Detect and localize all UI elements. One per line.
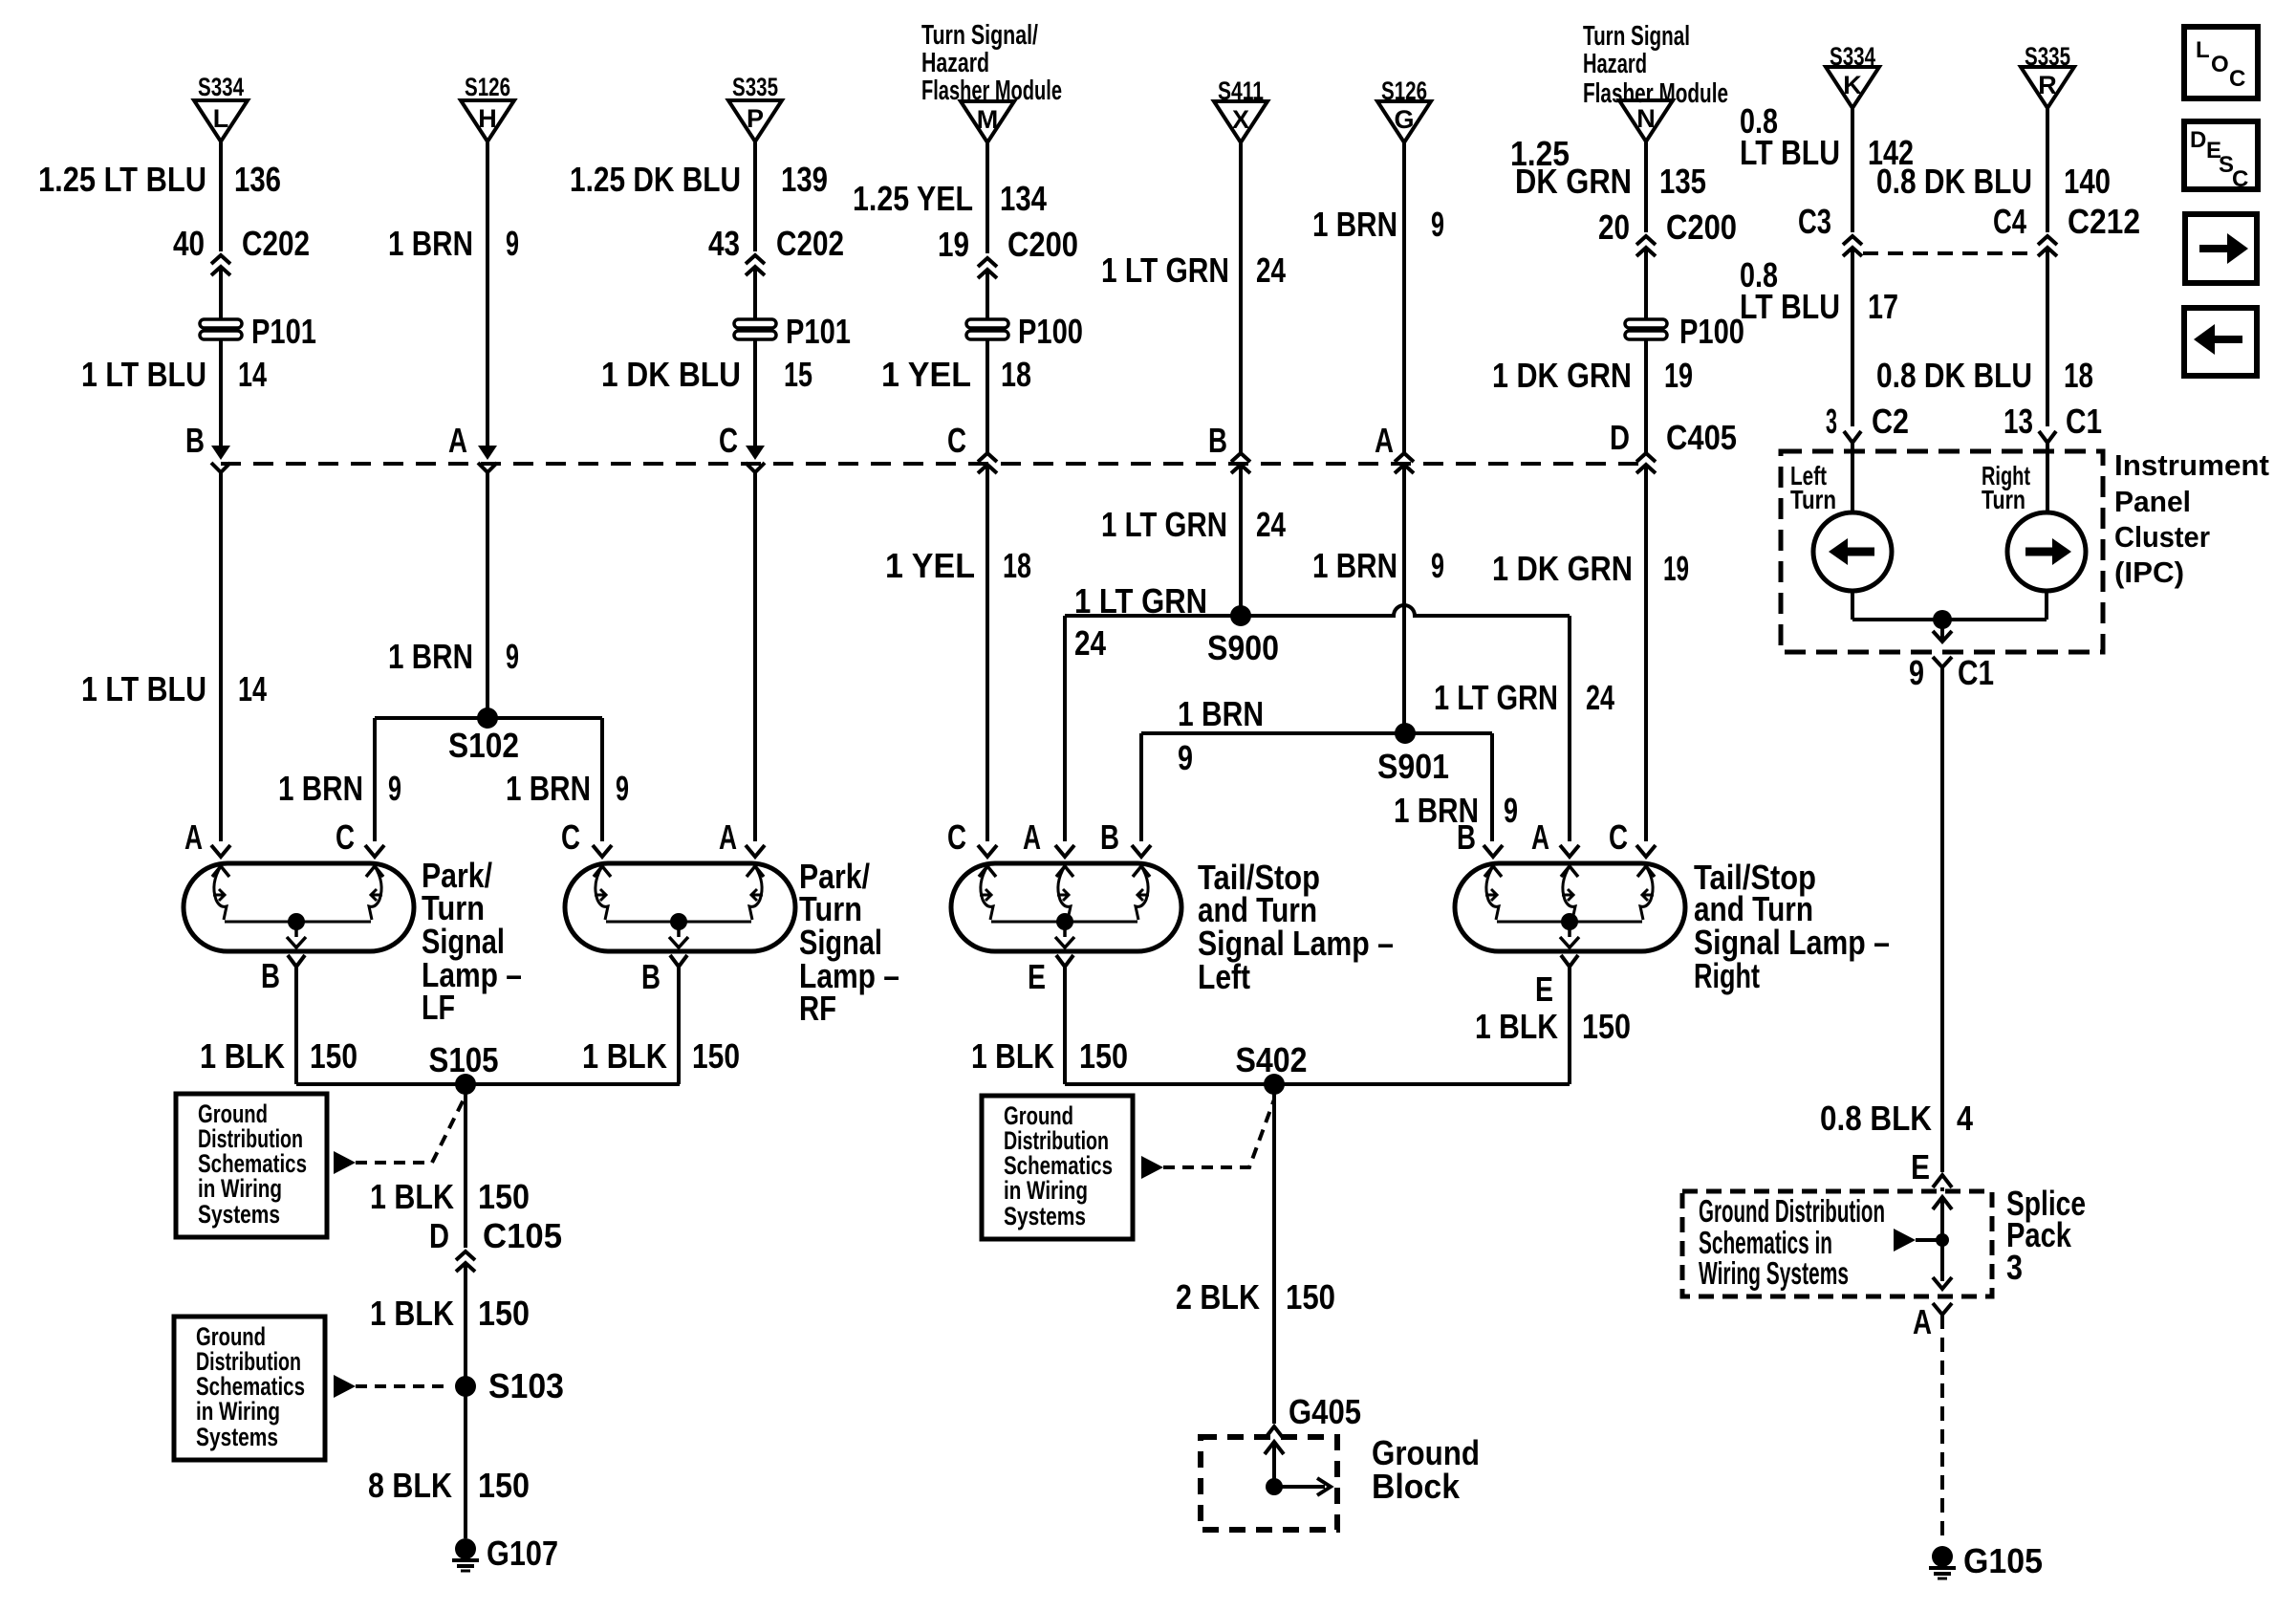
svg-text:150: 150 xyxy=(1286,1277,1335,1317)
svg-text:C4: C4 xyxy=(1993,202,2026,241)
svg-text:3: 3 xyxy=(2006,1248,2023,1287)
svg-text:M: M xyxy=(977,105,999,134)
svg-text:C: C xyxy=(947,817,966,857)
svg-text:1 BLK: 1 BLK xyxy=(582,1036,667,1076)
svg-text:B: B xyxy=(185,421,205,460)
svg-text:Instrument: Instrument xyxy=(2114,448,2269,482)
svg-text:P101: P101 xyxy=(786,312,851,351)
svg-text:9: 9 xyxy=(1431,205,1444,244)
svg-text:C405: C405 xyxy=(1666,418,1737,457)
svg-text:150: 150 xyxy=(310,1036,357,1076)
svg-text:136: 136 xyxy=(234,160,281,199)
svg-text:C: C xyxy=(947,421,966,460)
svg-text:1 YEL: 1 YEL xyxy=(885,546,975,585)
svg-text:3: 3 xyxy=(1826,402,1837,441)
svg-text:1 BLK: 1 BLK xyxy=(971,1036,1054,1076)
svg-text:C2: C2 xyxy=(1872,402,1909,441)
svg-text:140: 140 xyxy=(2064,162,2111,201)
svg-text:C200: C200 xyxy=(1007,225,1078,264)
svg-text:D: D xyxy=(429,1216,449,1255)
svg-text:Systems: Systems xyxy=(1004,1202,1086,1230)
svg-text:C: C xyxy=(2232,166,2248,192)
svg-text:LT BLU: LT BLU xyxy=(1740,133,1840,172)
svg-text:0.8 DK BLU: 0.8 DK BLU xyxy=(1876,162,2032,201)
svg-text:1 LT BLU: 1 LT BLU xyxy=(81,669,206,708)
svg-text:S126: S126 xyxy=(465,73,510,101)
svg-text:Block: Block xyxy=(1372,1467,1461,1506)
svg-text:Hazard: Hazard xyxy=(1583,49,1647,79)
svg-text:17: 17 xyxy=(1868,287,1898,326)
svg-text:150: 150 xyxy=(1582,1007,1631,1046)
svg-text:P: P xyxy=(747,104,764,133)
svg-text:4: 4 xyxy=(1957,1099,1973,1138)
svg-text:in Wiring: in Wiring xyxy=(1004,1176,1088,1205)
svg-text:E: E xyxy=(1028,957,1046,996)
svg-text:150: 150 xyxy=(478,1294,530,1333)
svg-text:13: 13 xyxy=(2004,402,2033,441)
svg-text:9: 9 xyxy=(616,769,629,808)
svg-text:1 YEL: 1 YEL xyxy=(881,355,971,394)
svg-text:1.25 YEL: 1.25 YEL xyxy=(853,179,973,218)
svg-text:S334: S334 xyxy=(1830,42,1875,71)
svg-text:20: 20 xyxy=(1598,207,1630,247)
svg-text:0.8 BLK: 0.8 BLK xyxy=(1820,1099,1932,1138)
svg-text:S335: S335 xyxy=(732,73,778,101)
svg-text:1 BLK: 1 BLK xyxy=(370,1294,454,1333)
svg-text:14: 14 xyxy=(238,355,267,394)
svg-text:Cluster: Cluster xyxy=(2114,520,2210,554)
svg-text:1 BRN: 1 BRN xyxy=(1312,546,1397,585)
svg-text:S411: S411 xyxy=(1218,76,1264,105)
svg-text:E: E xyxy=(1535,969,1553,1009)
svg-text:18: 18 xyxy=(1001,355,1031,394)
svg-text:X: X xyxy=(1232,105,1249,134)
svg-text:B: B xyxy=(1457,817,1476,857)
svg-text:B: B xyxy=(1208,421,1227,460)
svg-text:S103: S103 xyxy=(488,1366,564,1405)
svg-text:Hazard: Hazard xyxy=(921,48,989,78)
svg-text:A: A xyxy=(448,421,467,460)
svg-text:150: 150 xyxy=(478,1177,530,1216)
svg-text:18: 18 xyxy=(2064,356,2093,395)
svg-text:43: 43 xyxy=(708,224,740,263)
svg-text:1 BRN: 1 BRN xyxy=(506,769,591,808)
svg-text:C1: C1 xyxy=(1958,653,1994,692)
svg-text:A: A xyxy=(1531,817,1549,857)
svg-text:DK GRN: DK GRN xyxy=(1515,162,1632,201)
svg-text:1 BRN: 1 BRN xyxy=(1178,694,1264,733)
svg-text:D: D xyxy=(2190,127,2206,153)
svg-text:in Wiring: in Wiring xyxy=(196,1397,280,1426)
svg-text:Turn Signal: Turn Signal xyxy=(1583,21,1690,52)
svg-text:S402: S402 xyxy=(1236,1040,1308,1079)
svg-text:150: 150 xyxy=(1079,1036,1128,1076)
svg-text:Turn: Turn xyxy=(1790,485,1836,514)
svg-text:9: 9 xyxy=(506,637,519,676)
svg-text:1 LT GRN: 1 LT GRN xyxy=(1074,581,1207,620)
svg-text:D: D xyxy=(1610,418,1630,457)
svg-text:C: C xyxy=(1609,817,1628,857)
svg-text:P100: P100 xyxy=(1018,312,1083,351)
svg-text:Turn: Turn xyxy=(1982,485,2025,514)
svg-text:S900: S900 xyxy=(1207,628,1279,667)
svg-text:C200: C200 xyxy=(1666,207,1737,247)
svg-text:14: 14 xyxy=(238,669,267,708)
svg-text:1 BRN: 1 BRN xyxy=(278,769,363,808)
svg-text:40: 40 xyxy=(173,224,205,263)
svg-text:139: 139 xyxy=(781,160,828,199)
svg-text:Ground Distribution: Ground Distribution xyxy=(1699,1193,1885,1229)
svg-text:L: L xyxy=(213,104,229,133)
svg-text:S334: S334 xyxy=(198,73,244,101)
svg-text:C3: C3 xyxy=(1798,202,1831,241)
svg-text:RF: RF xyxy=(799,989,836,1028)
svg-text:Systems: Systems xyxy=(196,1423,278,1451)
svg-text:A: A xyxy=(1023,817,1041,857)
svg-text:Wiring Systems: Wiring Systems xyxy=(1699,1255,1849,1291)
svg-text:A: A xyxy=(1913,1302,1932,1341)
svg-text:C: C xyxy=(336,817,355,857)
svg-text:P100: P100 xyxy=(1679,312,1744,351)
svg-text:24: 24 xyxy=(1256,505,1286,544)
svg-text:S901: S901 xyxy=(1377,747,1449,786)
svg-text:C: C xyxy=(2229,66,2245,92)
svg-text:19: 19 xyxy=(1664,356,1693,395)
svg-text:1 DK BLU: 1 DK BLU xyxy=(601,355,741,394)
svg-text:1 LT GRN: 1 LT GRN xyxy=(1101,505,1227,544)
svg-text:9: 9 xyxy=(506,224,519,263)
svg-text:1 BRN: 1 BRN xyxy=(388,224,473,263)
svg-text:A: A xyxy=(184,817,203,857)
svg-text:8 BLK: 8 BLK xyxy=(368,1466,452,1505)
svg-text:LT BLU: LT BLU xyxy=(1740,287,1840,326)
svg-text:L: L xyxy=(2196,37,2210,63)
svg-text:S126: S126 xyxy=(1381,76,1427,105)
svg-text:C: C xyxy=(561,817,580,857)
svg-text:S335: S335 xyxy=(2025,42,2070,71)
svg-text:E: E xyxy=(1911,1147,1930,1186)
svg-text:18: 18 xyxy=(1003,546,1031,585)
svg-text:1 DK GRN: 1 DK GRN xyxy=(1492,356,1632,395)
svg-text:G105: G105 xyxy=(1963,1541,2043,1580)
svg-text:C1: C1 xyxy=(2066,402,2102,441)
svg-text:135: 135 xyxy=(1659,162,1706,201)
svg-text:9: 9 xyxy=(1504,791,1518,830)
svg-text:1 BRN: 1 BRN xyxy=(388,637,473,676)
svg-text:G: G xyxy=(1394,105,1414,134)
svg-text:1 BLK: 1 BLK xyxy=(370,1177,454,1216)
svg-text:C202: C202 xyxy=(242,224,310,263)
svg-text:9: 9 xyxy=(1431,546,1444,585)
svg-text:1 BRN: 1 BRN xyxy=(1312,205,1397,244)
svg-text:Right: Right xyxy=(1694,956,1760,995)
svg-text:O: O xyxy=(2211,52,2229,77)
svg-text:0.8 DK BLU: 0.8 DK BLU xyxy=(1876,356,2032,395)
svg-text:19: 19 xyxy=(1663,549,1689,588)
svg-text:134: 134 xyxy=(1000,179,1047,218)
svg-text:9: 9 xyxy=(388,769,401,808)
svg-text:LF: LF xyxy=(422,988,455,1027)
svg-text:H: H xyxy=(478,104,497,133)
svg-text:24: 24 xyxy=(1074,623,1106,663)
svg-text:B: B xyxy=(261,956,280,995)
svg-text:Panel: Panel xyxy=(2114,485,2191,518)
svg-text:24: 24 xyxy=(1586,678,1614,717)
svg-text:A: A xyxy=(719,817,737,857)
svg-text:1 LT BLU: 1 LT BLU xyxy=(81,355,206,394)
svg-text:G107: G107 xyxy=(487,1534,558,1573)
svg-text:1.25 DK BLU: 1.25 DK BLU xyxy=(570,160,741,199)
svg-text:S105: S105 xyxy=(429,1040,499,1079)
svg-text:K: K xyxy=(1843,71,1862,99)
svg-text:S102: S102 xyxy=(448,726,519,765)
svg-text:1 DK GRN: 1 DK GRN xyxy=(1492,549,1633,588)
svg-text:Systems: Systems xyxy=(198,1200,280,1229)
svg-text:150: 150 xyxy=(478,1466,530,1505)
svg-text:C202: C202 xyxy=(776,224,844,263)
svg-text:1 BLK: 1 BLK xyxy=(1475,1007,1558,1046)
svg-text:9: 9 xyxy=(1909,653,1924,692)
svg-text:(IPC): (IPC) xyxy=(2114,555,2184,589)
svg-text:B: B xyxy=(1100,817,1119,857)
svg-text:B: B xyxy=(641,957,661,996)
svg-text:1.25 LT BLU: 1.25 LT BLU xyxy=(38,160,206,199)
svg-text:C: C xyxy=(719,421,738,460)
svg-text:15: 15 xyxy=(784,355,812,394)
svg-text:150: 150 xyxy=(692,1036,740,1076)
svg-text:P101: P101 xyxy=(251,312,316,351)
svg-text:1 LT GRN: 1 LT GRN xyxy=(1434,678,1558,717)
svg-text:A: A xyxy=(1375,421,1394,460)
svg-text:Flasher Module: Flasher Module xyxy=(1583,78,1728,109)
svg-text:in Wiring: in Wiring xyxy=(198,1174,282,1203)
svg-text:Left: Left xyxy=(1198,957,1250,996)
svg-text:24: 24 xyxy=(1256,250,1286,290)
svg-text:Turn Signal/: Turn Signal/ xyxy=(921,20,1038,51)
svg-text:G405: G405 xyxy=(1289,1392,1361,1431)
svg-text:Flasher Module: Flasher Module xyxy=(921,76,1062,106)
svg-text:1 LT GRN: 1 LT GRN xyxy=(1101,250,1229,290)
svg-text:19: 19 xyxy=(938,225,969,264)
svg-text:2 BLK: 2 BLK xyxy=(1176,1277,1260,1317)
svg-text:C212: C212 xyxy=(2068,202,2140,241)
svg-text:9: 9 xyxy=(1178,738,1193,777)
svg-text:1 BLK: 1 BLK xyxy=(200,1036,285,1076)
svg-text:R: R xyxy=(2038,71,2057,99)
svg-text:C105: C105 xyxy=(483,1216,562,1255)
